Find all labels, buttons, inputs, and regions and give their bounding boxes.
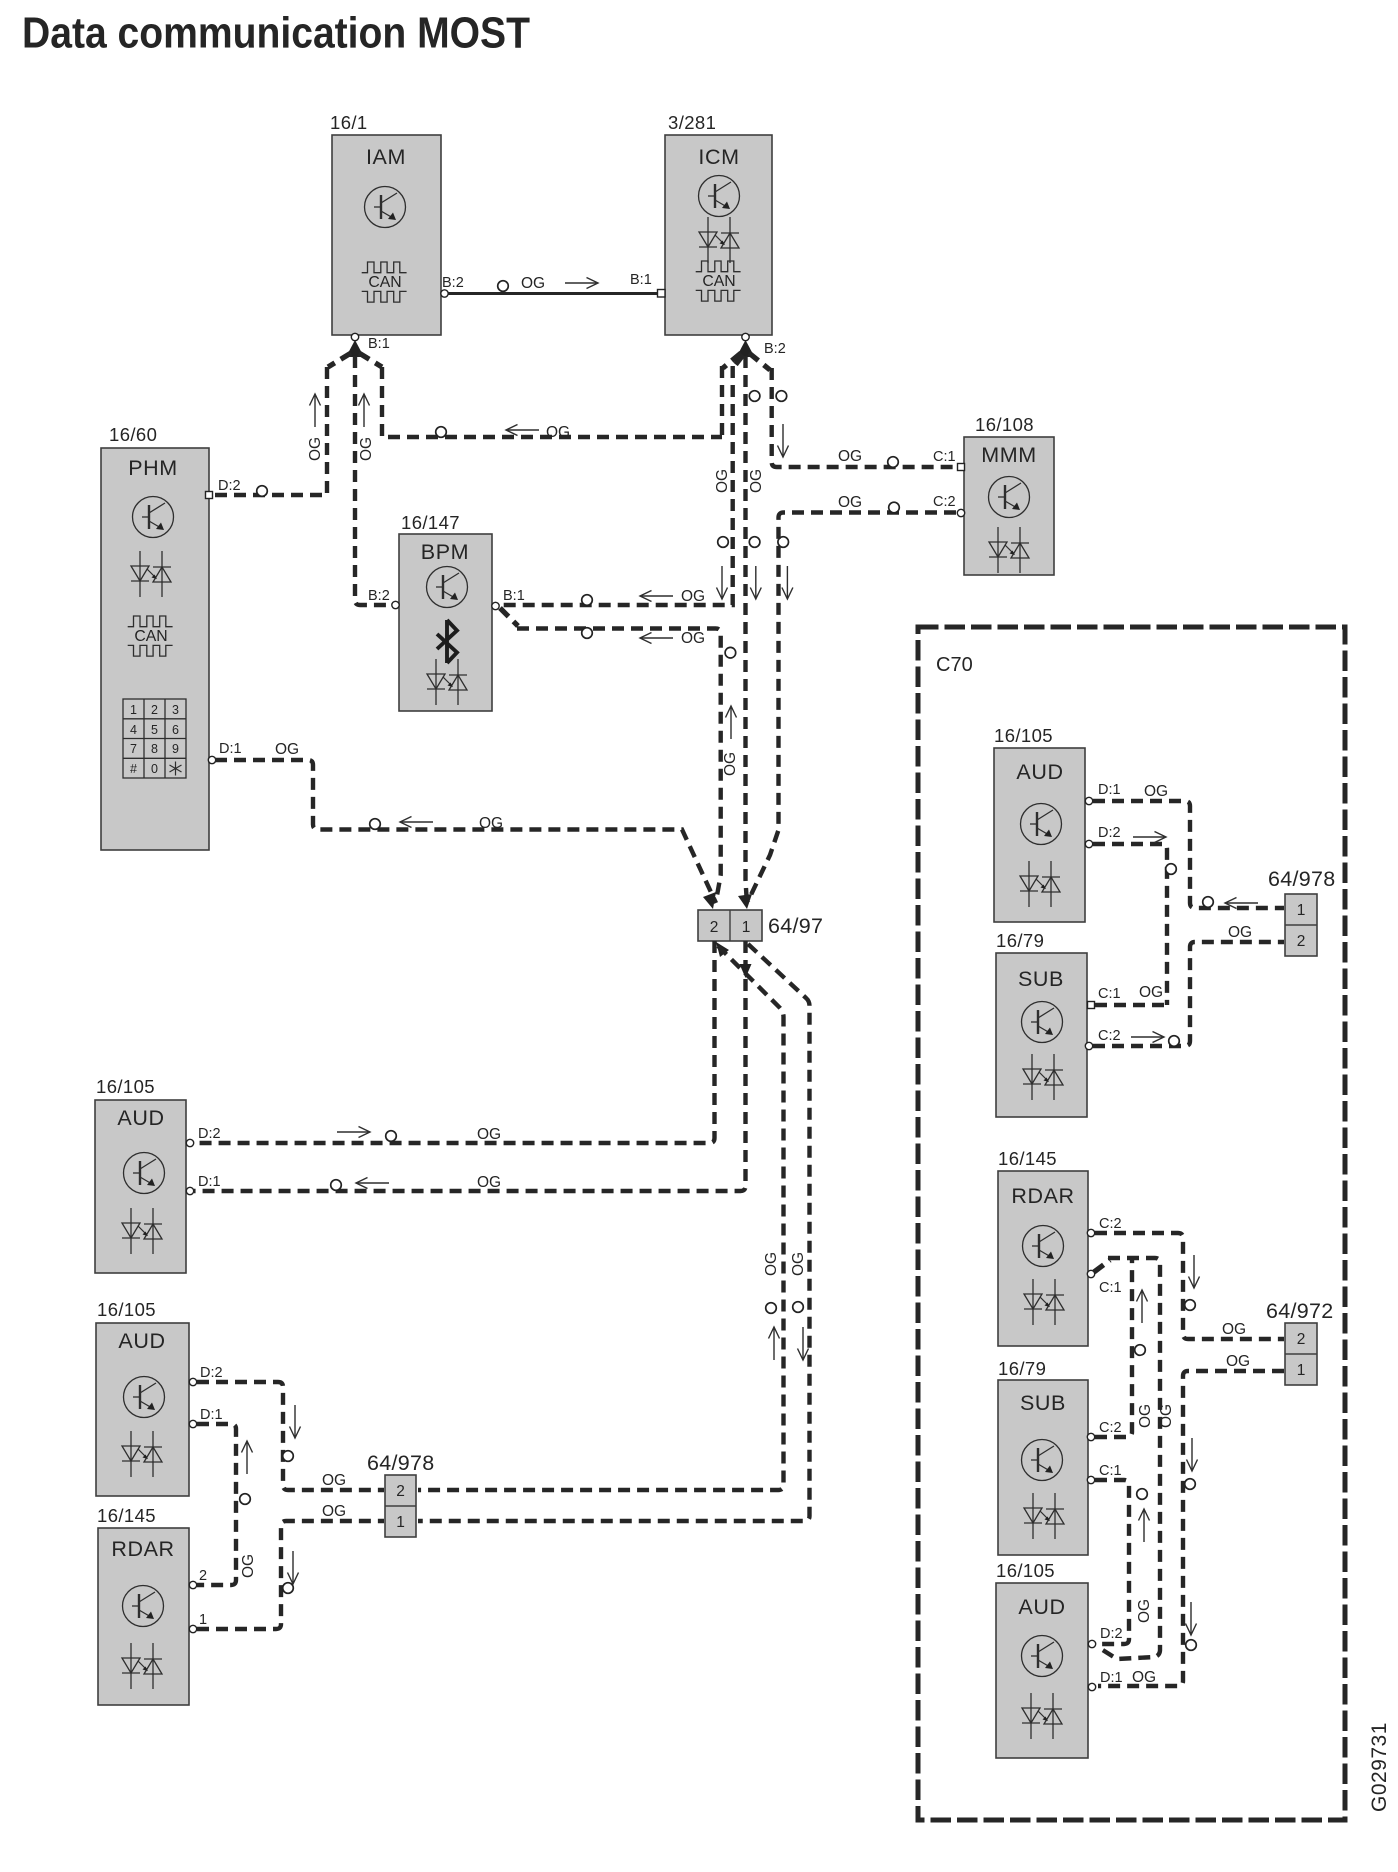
svg-text:OG: OG	[838, 494, 862, 511]
svg-text:AUD: AUD	[117, 1106, 164, 1130]
svg-text:9: 9	[172, 742, 179, 756]
module PHM 16/60	[101, 424, 209, 850]
svg-text:64/97: 64/97	[768, 914, 823, 938]
module AUD 16/105 (left upper)	[95, 1076, 186, 1273]
module AUD 16/105 (C70 top)	[994, 725, 1085, 922]
svg-text:OG: OG	[322, 1472, 346, 1489]
svg-text:OG: OG	[838, 448, 862, 465]
wire IAM B:2 to ICM B:1 solid OG	[448, 275, 657, 294]
module BPM 16/147	[399, 512, 492, 711]
transistor icon PHM	[133, 497, 174, 538]
svg-text:64/978: 64/978	[1268, 867, 1336, 891]
svg-text:C:1: C:1	[933, 449, 956, 465]
svg-text:D:2: D:2	[1100, 1626, 1123, 1642]
up arrow + OG label on PHM D:2 riser	[307, 394, 324, 461]
wire AUD(lower) D:1 to RDAR(left) 2	[197, 1424, 257, 1585]
wire SUB(C70 bottom) C:2 up to C:1 chain	[1095, 1258, 1154, 1437]
svg-text:BPM: BPM	[421, 540, 469, 564]
svg-text:64/978: 64/978	[367, 1451, 435, 1475]
wire RDAR(C70) C:2 to 64/972 pin 2	[1095, 1233, 1284, 1339]
terminal PHM D:1	[208, 741, 241, 764]
wire AUD(C70) D:1 to 64/978 pin 1	[1093, 783, 1284, 909]
svg-text:OG: OG	[1132, 1669, 1156, 1686]
transistor icon MMM	[989, 477, 1030, 518]
svg-text:OG: OG	[1228, 924, 1252, 941]
wire SUB(C70 bottom) C:1 down to AUD(C70 bottom) D:2	[1095, 1480, 1153, 1644]
terminal SUB(C70 bottom) C:2	[1087, 1420, 1121, 1441]
module SUB 16/79 (C70 bottom)	[998, 1358, 1088, 1555]
arrowhead into 64/97 pin 2	[703, 892, 716, 909]
svg-text:OG: OG	[748, 469, 765, 493]
svg-text:2: 2	[396, 1483, 405, 1500]
svg-text:16/105: 16/105	[994, 725, 1053, 746]
optocoupler icon AUD C70 top	[1020, 861, 1060, 907]
terminal PHM D:2	[206, 478, 241, 499]
svg-text:16/1: 16/1	[330, 112, 368, 133]
terminal SUB(C70 top) C:1	[1088, 986, 1121, 1009]
optocoupler icon RDAR left	[122, 1643, 162, 1689]
svg-text:C:2: C:2	[1098, 1028, 1121, 1044]
terminal ICM B:2	[742, 333, 786, 357]
svg-text:D:1: D:1	[198, 1174, 221, 1190]
svg-text:OG: OG	[477, 1126, 501, 1143]
svg-text:OG: OG	[1136, 1599, 1153, 1623]
arrowhead into IAM B:1	[346, 340, 364, 357]
svg-text:MMM: MMM	[981, 443, 1037, 467]
svg-text:OG: OG	[790, 1252, 807, 1276]
wire PHM D:1 to 64/97 pin 2	[215, 741, 716, 903]
svg-text:16/145: 16/145	[998, 1148, 1057, 1169]
svg-text:16/105: 16/105	[96, 1076, 155, 1097]
terminal AUD(C70 bottom) D:2	[1088, 1626, 1122, 1648]
svg-text:1: 1	[396, 1514, 405, 1531]
svg-text:OG: OG	[681, 630, 705, 647]
svg-text:PHM: PHM	[128, 456, 178, 480]
terminal IAM B:2	[441, 275, 464, 297]
transistor icon RDAR C70	[1023, 1226, 1064, 1267]
svg-text:AUD: AUD	[118, 1329, 165, 1353]
svg-text:D:1: D:1	[200, 1407, 223, 1423]
module SUB 16/79 (C70 top)	[996, 930, 1087, 1117]
svg-text:RDAR: RDAR	[1011, 1184, 1074, 1208]
wire MMM C:2 to 64/97 pin 1	[748, 494, 956, 901]
terminal AUD(C70 bottom) D:1	[1088, 1670, 1122, 1691]
module AUD 16/105 (left lower)	[96, 1299, 189, 1496]
svg-text:OG: OG	[763, 1252, 780, 1276]
markers on x=783.5 riser	[763, 1252, 780, 1360]
optocoupler icon AUD left upper	[122, 1208, 162, 1254]
svg-text:OG: OG	[722, 752, 739, 776]
svg-text:B:2: B:2	[764, 341, 786, 357]
svg-text:D:1: D:1	[219, 741, 242, 757]
CAN symbol IAM	[362, 262, 407, 302]
svg-text:6: 6	[172, 723, 179, 737]
terminal MMM C:1	[933, 449, 965, 471]
arrowhead into ICM B:2	[737, 340, 755, 357]
svg-text:16/60: 16/60	[109, 424, 157, 445]
svg-text:D:2: D:2	[1098, 825, 1121, 841]
svg-text:16/79: 16/79	[996, 930, 1044, 951]
wire RDAR(left) 1 to 64/978 pin 1	[197, 1503, 384, 1629]
svg-text:G029731: G029731	[1368, 1722, 1391, 1812]
transistor icon SUB C70 top	[1022, 1002, 1063, 1043]
transistor icon AUD left lower	[124, 1377, 165, 1418]
wire AUD(C70) D:2 down to SUB C:1	[1093, 832, 1176, 1006]
CAN symbol PHM	[128, 616, 173, 656]
wire SUB(C70) C:2 to 64/978 pin 2	[1093, 924, 1284, 1046]
svg-text:2: 2	[151, 703, 158, 717]
svg-text:SUB: SUB	[1020, 1391, 1066, 1415]
optocoupler icon RDAR C70	[1024, 1279, 1064, 1325]
markers on AUD D:2 wire	[337, 1126, 501, 1143]
terminal RDAR(left) 2	[189, 1568, 207, 1589]
svg-text:4: 4	[130, 723, 137, 737]
svg-text:AUD: AUD	[1016, 760, 1063, 784]
terminal RDAR(C70) C:2	[1087, 1216, 1121, 1237]
optocoupler icon ICM	[699, 217, 739, 263]
optocoupler icon SUB C70 top	[1023, 1054, 1063, 1100]
transistor icon IAM	[365, 187, 406, 228]
wire ICM B:2 down to 64/97 pin 1 (x=745.5)	[746, 356, 748, 905]
svg-text:OG: OG	[322, 1503, 346, 1520]
wire RDAR(C70) C:1 chain down to AUD(C70 bottom) D:2	[1094, 1258, 1160, 1659]
svg-text:3/281: 3/281	[668, 112, 716, 133]
svg-text:OG: OG	[358, 437, 375, 461]
svg-text:OG: OG	[1144, 783, 1168, 800]
module MMM 16/108	[964, 414, 1054, 575]
down arrows on risers	[717, 566, 728, 599]
optocoupler icon MMM	[989, 527, 1029, 573]
svg-text:2: 2	[1297, 1331, 1306, 1348]
bluetooth icon BPM	[437, 620, 457, 663]
svg-text:16/145: 16/145	[97, 1505, 156, 1526]
svg-text:16/105: 16/105	[996, 1560, 1055, 1581]
svg-text:C70: C70	[936, 654, 973, 676]
svg-text:8: 8	[151, 742, 158, 756]
arrowhead into 64/97 pin 1	[738, 894, 752, 909]
wire 64/972 pin 1 down to AUD(C70 bottom) D:1	[1098, 1353, 1284, 1686]
wire IAM B:1 to OG bus (x=382 riser, y=437 to ICM side)	[359, 353, 722, 441]
svg-text:C:2: C:2	[1099, 1420, 1122, 1436]
svg-text:B:1: B:1	[368, 336, 390, 352]
markers on x=809.5 riser	[790, 1252, 809, 1360]
terminal AUD(C70 top) D:1	[1085, 782, 1120, 805]
terminal RDAR(C70) C:1	[1087, 1270, 1121, 1296]
svg-text:B:2: B:2	[368, 588, 390, 604]
svg-text:AUD: AUD	[1018, 1595, 1065, 1619]
svg-text:1: 1	[130, 703, 137, 717]
terminal AUD(left upper) D:2	[186, 1126, 220, 1147]
svg-text:2: 2	[1297, 933, 1306, 950]
svg-text:OG: OG	[714, 469, 731, 493]
svg-text:OG: OG	[307, 437, 324, 461]
svg-text:1: 1	[1297, 902, 1306, 919]
wire IAM B:1 down to BPM B:2	[355, 356, 391, 605]
svg-text:RDAR: RDAR	[111, 1537, 174, 1561]
terminal MMM C:2	[933, 494, 965, 517]
svg-text:OG: OG	[546, 424, 570, 441]
svg-text:64/972: 64/972	[1266, 1299, 1334, 1323]
svg-text:1: 1	[1297, 1362, 1306, 1379]
svg-text:16/108: 16/108	[975, 414, 1034, 435]
svg-text:0: 0	[151, 762, 158, 776]
svg-text:5: 5	[151, 723, 158, 737]
markers on AUD D:1 wire	[331, 1174, 501, 1191]
node circles below ICM B:2 fan	[749, 391, 760, 402]
terminal AUD(left upper) D:1	[186, 1174, 220, 1195]
svg-text:C:1: C:1	[1099, 1463, 1122, 1479]
terminal SUB(C70 bottom) C:1	[1087, 1463, 1121, 1484]
svg-text:3: 3	[172, 703, 179, 717]
svg-text:OG: OG	[1139, 984, 1163, 1001]
svg-text:16/147: 16/147	[401, 512, 460, 533]
svg-text:D:1: D:1	[1100, 1670, 1123, 1686]
CAN symbol ICM	[696, 261, 741, 301]
svg-text:#: #	[130, 762, 137, 776]
terminal BPM B:1	[492, 588, 525, 610]
svg-text:1: 1	[199, 1612, 207, 1628]
wire 64/97 pin 2 diagonal to 64/978 pin 2 (x=783.5 riser)	[418, 942, 784, 1490]
keypad icon PHM	[123, 699, 186, 778]
connector 64/978 (left)	[367, 1451, 435, 1537]
svg-text:2: 2	[199, 1568, 207, 1584]
svg-text:D:2: D:2	[218, 478, 241, 494]
svg-text:SUB: SUB	[1018, 967, 1064, 991]
module RDAR 16/145 (C70)	[998, 1148, 1088, 1346]
optocoupler icon BPM	[427, 659, 467, 705]
svg-text:2: 2	[710, 919, 719, 936]
svg-text:C:1: C:1	[1098, 986, 1121, 1002]
connector 64/978 (right, in C70)	[1268, 867, 1336, 956]
node circles on risers y=542	[718, 537, 729, 548]
connector housing C70 dashed box	[918, 627, 1345, 1820]
svg-text:OG: OG	[1137, 1404, 1154, 1428]
optocoupler icon AUD left lower	[122, 1431, 162, 1477]
transistor icon SUB C70 bottom	[1022, 1440, 1063, 1481]
svg-text:IAM: IAM	[366, 145, 406, 169]
svg-text:16/105: 16/105	[97, 1299, 156, 1320]
terminal RDAR(left) 1	[189, 1612, 207, 1633]
svg-text:16/79: 16/79	[998, 1358, 1046, 1379]
terminal IAM B:1	[351, 333, 389, 352]
svg-text:C:1: C:1	[1099, 1280, 1122, 1296]
svg-text:OG: OG	[1222, 1321, 1246, 1338]
svg-text:1: 1	[742, 919, 751, 936]
transistor icon AUD C70 top	[1021, 804, 1062, 845]
connector 64/97	[698, 910, 823, 941]
wire 64/97 pin 1 diagonal to 64/978 pin 1 (x=809.5 riser)	[418, 944, 810, 1521]
transistor icon AUD left upper	[124, 1153, 165, 1194]
terminal ICM B:1	[630, 272, 665, 297]
terminal AUD(left lower) D:1	[189, 1407, 222, 1428]
transistor icon AUD C70 bottom	[1022, 1636, 1063, 1677]
wire ICM B:2 to MMM C:1	[749, 353, 956, 467]
transistor icon RDAR left	[123, 1586, 164, 1627]
module RDAR 16/145 (left)	[97, 1505, 189, 1705]
svg-text:OG: OG	[477, 1174, 501, 1191]
wire IAM B:1 to PHM D:2 (via x=327)	[212, 353, 351, 496]
svg-text:OG: OG	[1226, 1353, 1250, 1370]
terminal SUB(C70 top) C:2	[1085, 1028, 1120, 1050]
connector 64/972	[1266, 1299, 1334, 1385]
svg-text:D:2: D:2	[198, 1126, 221, 1142]
svg-text:B:1: B:1	[630, 272, 652, 288]
svg-text:OG: OG	[1158, 1404, 1175, 1428]
svg-text:B:2: B:2	[442, 275, 464, 291]
terminal AUD(C70 top) D:2	[1085, 825, 1120, 848]
module ICM 3/281	[665, 112, 772, 335]
svg-text:7: 7	[130, 742, 137, 756]
svg-text:ICM: ICM	[698, 145, 739, 169]
up arrow + OG label on BPM B:2 riser	[358, 394, 375, 461]
module AUD 16/105 (C70 bottom)	[996, 1560, 1088, 1758]
svg-text:OG: OG	[275, 741, 299, 758]
wire BPM B:1 lower branch to 64/97 pin 2	[500, 608, 739, 901]
wire ICM B:2 to BPM B:1 (x=732.7 riser)	[499, 355, 743, 605]
optocoupler icon AUD C70 bottom	[1022, 1693, 1062, 1739]
svg-text:OG: OG	[240, 1554, 257, 1578]
svg-text:OG: OG	[521, 275, 545, 292]
optocoupler icon SUB C70 bottom	[1024, 1493, 1064, 1539]
wire AUD(lower) D:2 to 64/978 pin 2	[197, 1382, 384, 1490]
optocoupler icon PHM	[131, 551, 171, 597]
transistor icon ICM	[699, 176, 740, 217]
wire 64/97 pin 1 down to AUD 16/105 D:1	[194, 941, 752, 1191]
svg-text:C:2: C:2	[1099, 1216, 1122, 1232]
svg-text:OG: OG	[681, 588, 705, 605]
svg-text:C:2: C:2	[933, 494, 956, 510]
svg-text:B:1: B:1	[503, 588, 525, 604]
svg-text:D:2: D:2	[200, 1365, 223, 1381]
wire SUB(C70) C:1 joining D:2 riser	[1095, 1003, 1167, 1007]
module IAM 16/1	[330, 112, 441, 335]
terminal BPM B:2	[368, 588, 399, 609]
svg-text:D:1: D:1	[1098, 782, 1121, 798]
terminal AUD(left lower) D:2	[189, 1365, 222, 1386]
wire ICM B:2 left strand joining y=437 bus	[723, 353, 741, 368]
svg-text:Data communication MOST: Data communication MOST	[22, 9, 530, 58]
wire 64/97 pin 2 down to AUD 16/105 D:2	[194, 941, 715, 1143]
svg-text:OG: OG	[479, 815, 503, 832]
transistor icon BPM	[427, 567, 468, 608]
